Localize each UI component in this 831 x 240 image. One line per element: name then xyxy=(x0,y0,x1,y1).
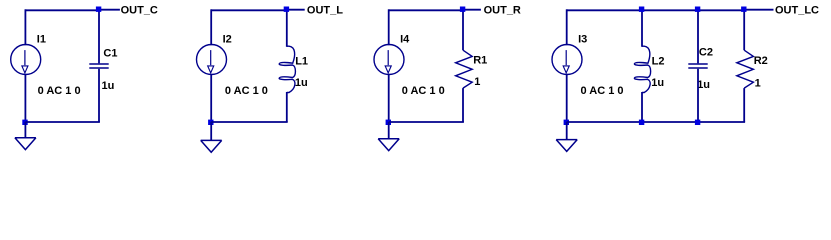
wire xyxy=(388,122,390,139)
node junction xyxy=(639,120,644,125)
svg-text:1: 1 xyxy=(755,77,761,89)
svg-text:1u: 1u xyxy=(697,79,710,91)
svg-text:0 AC 1 0: 0 AC 1 0 xyxy=(38,85,81,97)
wire xyxy=(462,88,464,122)
ground xyxy=(378,139,399,151)
svg-text:R2: R2 xyxy=(754,55,768,67)
svg-text:OUT_L: OUT_L xyxy=(307,4,343,16)
wire xyxy=(287,9,305,11)
resistor R1 xyxy=(456,50,473,88)
wire xyxy=(286,92,288,122)
svg-text:OUT_C: OUT_C xyxy=(121,4,158,16)
svg-text:0 AC 1 0: 0 AC 1 0 xyxy=(225,85,268,97)
node junction xyxy=(96,7,101,12)
wire xyxy=(98,69,100,122)
node junction xyxy=(460,7,465,12)
wire xyxy=(566,9,568,45)
wire xyxy=(25,121,100,123)
current source I3 xyxy=(552,45,582,75)
wire xyxy=(566,74,568,122)
wire xyxy=(641,10,643,47)
svg-text:1: 1 xyxy=(474,76,480,88)
svg-text:1u: 1u xyxy=(651,77,664,89)
wire xyxy=(388,9,390,45)
svg-text:I2: I2 xyxy=(223,33,232,45)
node junction xyxy=(386,120,391,125)
wire xyxy=(24,74,26,122)
wire xyxy=(566,122,568,140)
svg-text:R1: R1 xyxy=(473,55,487,67)
svg-text:1u: 1u xyxy=(295,77,308,89)
node junction xyxy=(695,7,700,12)
svg-text:L1: L1 xyxy=(295,56,308,68)
wire xyxy=(567,121,745,123)
capacitor C1 xyxy=(89,64,108,68)
wire xyxy=(211,9,287,11)
wire xyxy=(388,74,390,122)
current source I1 xyxy=(11,45,41,75)
wire xyxy=(99,9,120,11)
node junction xyxy=(695,120,700,125)
wire xyxy=(744,9,773,11)
wire xyxy=(24,122,26,138)
wire xyxy=(98,10,100,63)
svg-text:0 AC 1 0: 0 AC 1 0 xyxy=(581,85,624,97)
wire xyxy=(389,121,464,123)
svg-text:L2: L2 xyxy=(652,55,665,67)
wire xyxy=(743,10,745,50)
node junction xyxy=(284,7,289,12)
wire xyxy=(463,9,481,11)
wire xyxy=(567,9,745,11)
wire xyxy=(641,92,643,122)
wire xyxy=(211,121,288,123)
wire xyxy=(210,9,212,45)
node junction xyxy=(639,7,644,12)
wire xyxy=(210,74,212,122)
svg-text:0 AC 1 0: 0 AC 1 0 xyxy=(402,85,445,97)
resistor R2 xyxy=(737,50,754,88)
wire xyxy=(389,9,463,11)
ground xyxy=(15,138,36,150)
svg-text:C2: C2 xyxy=(699,47,713,59)
current source I4 xyxy=(374,45,404,75)
node junction xyxy=(741,7,746,12)
ground xyxy=(201,140,222,152)
capacitor C2 xyxy=(688,64,707,68)
wire xyxy=(697,10,699,63)
inductor L1 xyxy=(279,46,295,92)
wire xyxy=(697,69,699,122)
wire xyxy=(462,10,464,50)
inductor L2 xyxy=(634,46,650,92)
svg-text:I4: I4 xyxy=(400,33,410,45)
wire xyxy=(24,9,26,45)
node junction xyxy=(564,120,569,125)
svg-text:1u: 1u xyxy=(102,80,115,92)
wire xyxy=(743,88,745,122)
node junction xyxy=(208,120,213,125)
node junction xyxy=(22,120,27,125)
svg-text:OUT_LC: OUT_LC xyxy=(775,4,819,16)
current source I2 xyxy=(197,45,227,75)
svg-text:OUT_R: OUT_R xyxy=(484,4,521,16)
wire xyxy=(25,9,99,11)
svg-text:C1: C1 xyxy=(103,48,117,60)
svg-text:I3: I3 xyxy=(578,33,587,45)
svg-text:I1: I1 xyxy=(37,33,46,45)
ground xyxy=(556,140,577,152)
wire xyxy=(210,122,212,140)
wire xyxy=(286,10,288,47)
